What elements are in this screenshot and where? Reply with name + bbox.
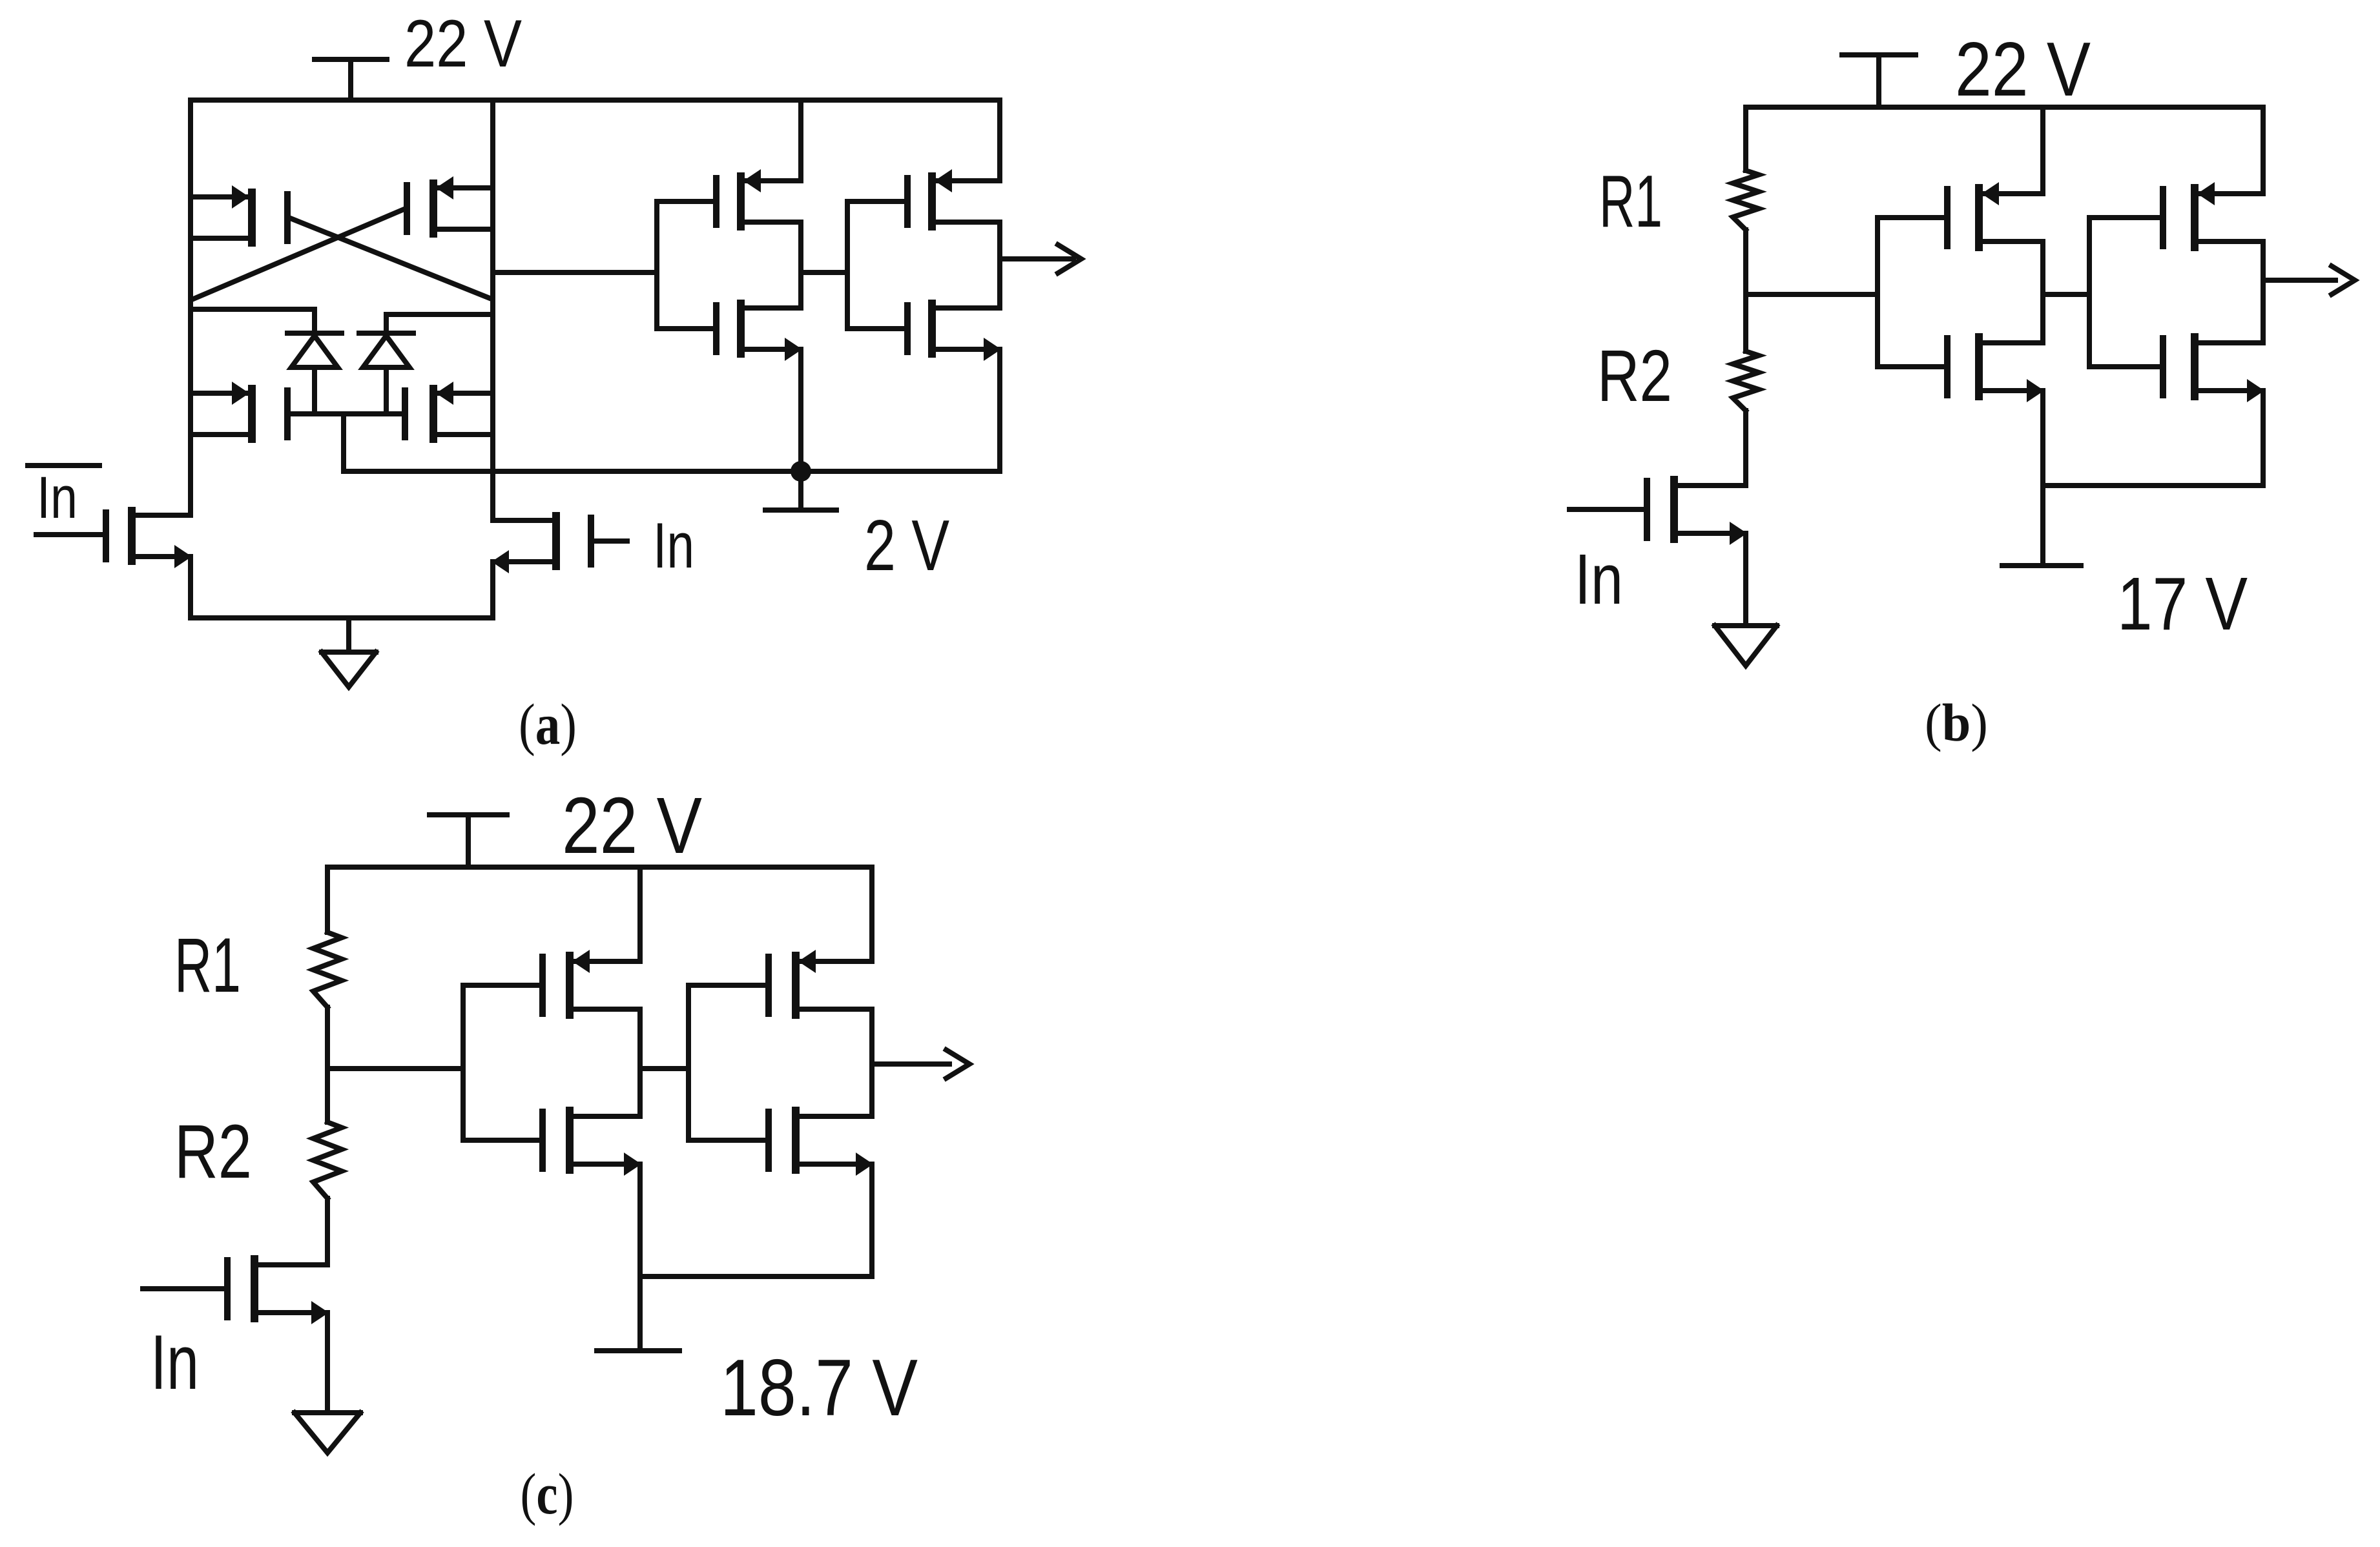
svg-text:R1: R1 [174, 922, 241, 1009]
svg-text:22 V: 22 V [562, 782, 702, 870]
svg-text:R1: R1 [1599, 161, 1662, 243]
svg-text:In: In [653, 509, 694, 581]
svg-text:In: In [150, 1319, 199, 1406]
svg-text:2 V: 2 V [864, 506, 949, 586]
svg-text:(a): (a) [519, 693, 577, 757]
svg-text:18.7 V: 18.7 V [720, 1344, 918, 1433]
svg-text:(b): (b) [1925, 693, 1988, 752]
svg-text:17 V: 17 V [2117, 562, 2248, 646]
svg-text:R2: R2 [174, 1109, 252, 1194]
svg-text:22 V: 22 V [404, 6, 522, 81]
svg-text:R2: R2 [1597, 335, 1672, 416]
svg-text:In: In [1575, 540, 1623, 619]
svg-text:22 V: 22 V [1955, 26, 2091, 112]
svg-text:(c): (c) [521, 1462, 574, 1526]
svg-text:In: In [37, 465, 78, 531]
